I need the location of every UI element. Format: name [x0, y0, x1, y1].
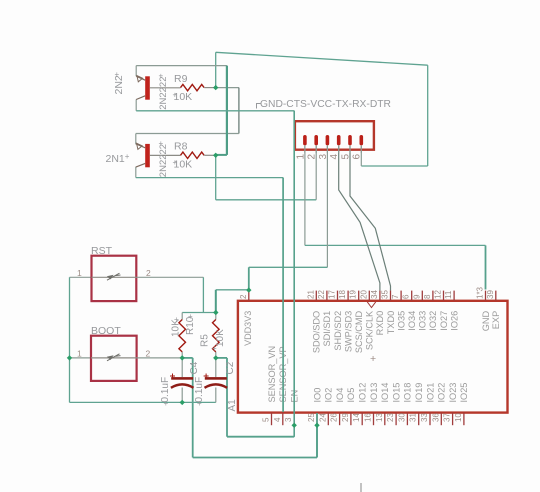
svg-text:1: 1: [295, 154, 306, 160]
svg-text:6: 6: [402, 294, 411, 299]
svg-text:IO27: IO27: [439, 311, 449, 331]
svg-text:IO14: IO14: [380, 383, 390, 403]
IC top pin stubs: [316, 291, 496, 301]
wire: connector pin1 drop: [304, 146, 306, 245]
svg-text:3: 3: [284, 417, 293, 422]
wire: R5 top lead: [215, 313, 217, 320]
svg-text:29: 29: [341, 413, 350, 422]
svg-text:SCK/CLK: SCK/CLK: [365, 310, 375, 350]
svg-text:IO19: IO19: [414, 383, 424, 403]
svg-text:4: 4: [273, 417, 282, 422]
svg-text:30: 30: [397, 413, 406, 422]
svg-text:VDD3V3: VDD3V3: [243, 311, 253, 346]
wire: CTS horizontal to pin2: [216, 199, 317, 201]
svg-text:IO33: IO33: [418, 311, 428, 331]
wire: 2N1 box bottom to right: [136, 177, 283, 179]
resistor R5 vertical: [213, 320, 220, 352]
transistor Q1 2N1: [136, 143, 181, 167]
junction C4 bottom: [180, 400, 185, 405]
svg-text:7: 7: [391, 294, 400, 299]
svg-text:3: 3: [318, 154, 329, 160]
IC top pin numbers: [306, 286, 495, 299]
svg-text:18: 18: [338, 290, 347, 299]
svg-text:IO35: IO35: [396, 311, 406, 331]
frame tick mark: [360, 483, 362, 492]
svg-text:BOOT: BOOT: [91, 325, 121, 337]
junction EN pin: [292, 423, 297, 428]
svg-text:23: 23: [386, 413, 395, 422]
svg-text:33: 33: [420, 413, 429, 422]
svg-text:SHD/SD2: SHD/SD2: [333, 311, 343, 351]
resistor R10 vertical: [179, 320, 186, 352]
pushbutton RST box: [92, 256, 137, 301]
junction IO0 pin: [314, 423, 319, 428]
wire: 2N2 emitter vertical to R8 level: [226, 66, 228, 155]
wire: connector pin2 drop: [315, 146, 317, 200]
lead R9 right: [204, 87, 216, 89]
svg-text:10: 10: [454, 413, 463, 422]
svg-text:A1: A1: [227, 399, 238, 412]
wire: C4 bottom lead: [181, 388, 183, 403]
wire: BOOT pin1 left: [70, 357, 92, 359]
svg-text:2N2222: 2N2222: [158, 77, 169, 110]
wire: 2N2 box top: [136, 65, 227, 67]
svg-text:IO34: IO34: [407, 311, 417, 331]
svg-text:+: +: [212, 344, 217, 353]
junction R5 bottom / C2 top: [213, 355, 218, 360]
svg-text:11: 11: [444, 290, 453, 299]
wire: into R8 junction: [216, 154, 227, 156]
wire: RST pin1 left: [70, 276, 92, 278]
wire: DTR horizontal to pin6: [361, 165, 427, 167]
wire: RST pin2 to right: [138, 276, 204, 278]
svg-text:EXP: EXP: [491, 311, 501, 329]
connector J1 body: [295, 121, 374, 150]
pushbutton BOOT box: [91, 336, 137, 381]
svg-text:25: 25: [307, 413, 316, 422]
svg-text:SDI/SD1: SDI/SD1: [322, 311, 332, 347]
resistor R8: [181, 152, 205, 158]
wire: R5 top junction left to R10: [182, 312, 216, 314]
wire: 2N1 box top: [136, 133, 239, 135]
wire: left GND column vertical: [69, 277, 71, 402]
wire: down to 2N1 collector net: [238, 88, 240, 134]
wire overlay: EN vertical over IC edges: [293, 111, 295, 437]
connector origin mark: [257, 104, 261, 109]
svg-text:14: 14: [352, 413, 361, 422]
svg-text:24: 24: [318, 413, 327, 422]
svg-text:21: 21: [306, 290, 315, 299]
svg-text:IO2: IO2: [324, 388, 334, 403]
svg-text:TXD0: TXD0: [386, 311, 396, 335]
svg-text:+: +: [174, 315, 179, 324]
wire: DTR slanted top wire: [216, 52, 428, 65]
svg-text:SWP/SD3: SWP/SD3: [343, 311, 353, 352]
svg-text:1: 1: [77, 268, 82, 278]
svg-text:22: 22: [317, 290, 326, 299]
wire: EN bottom horizontal: [227, 436, 294, 438]
junction R10 bottom / C4 top: [180, 355, 185, 360]
svg-text:SCS/CMD: SCS/CMD: [354, 310, 364, 353]
junction BOOT pin1: [67, 355, 72, 360]
RST through wire: [92, 276, 138, 278]
svg-text:RST: RST: [91, 245, 113, 257]
resistor R9: [181, 84, 205, 90]
junction R5 top: [213, 310, 218, 315]
capacitor C4: [170, 374, 194, 388]
svg-text:IO0: IO0: [312, 388, 322, 403]
wire: VDD dot left: [216, 289, 249, 291]
svg-text:16: 16: [364, 413, 373, 422]
wire: 2N2 box left bottom stub: [135, 100, 137, 111]
wire overlay: 2N1 collector over IC top edge: [282, 178, 284, 412]
svg-text:5: 5: [340, 154, 351, 160]
svg-text:20: 20: [359, 290, 368, 299]
transistor Q2 2N2: [136, 76, 180, 100]
svg-text:2N2222: 2N2222: [158, 144, 169, 177]
svg-text:+: +: [173, 91, 178, 100]
wire: R8 junction down: [215, 155, 217, 200]
svg-text:C4: C4: [189, 361, 200, 374]
IC bottom pin stubs: [272, 413, 464, 426]
svg-text:37: 37: [443, 413, 452, 422]
svg-text:2: 2: [239, 294, 248, 299]
connector pads: [303, 135, 363, 145]
wire: GND down to IC pin: [485, 245, 487, 289]
svg-text:35: 35: [381, 290, 390, 299]
svg-text:+: +: [173, 158, 178, 167]
svg-text:IO15: IO15: [391, 383, 401, 403]
wire overlay: connector pad leads over border: [305, 146, 361, 154]
svg-text:SDO/SDO: SDO/SDO: [312, 311, 322, 353]
capacitor C2: [204, 374, 228, 388]
wire: IO0 junction right: [182, 357, 193, 359]
wire: 2N2 box bottom long horizontal: [136, 110, 294, 112]
svg-text:IO32: IO32: [428, 311, 438, 331]
svg-text:13: 13: [375, 413, 384, 422]
wire: GND horizontal: [305, 244, 486, 246]
junction R8 right: [213, 153, 218, 158]
wire: 2N2 box left top stub: [135, 66, 137, 77]
svg-text:6: 6: [352, 154, 363, 160]
svg-text:5: 5: [262, 417, 271, 422]
wire: connector pin3 drop: [326, 146, 328, 267]
svg-text:R9: R9: [174, 73, 188, 85]
wire: RST pin2 down: [202, 277, 204, 312]
svg-text:4: 4: [329, 154, 340, 160]
IC top pin names: [312, 310, 502, 353]
svg-text:R5: R5: [199, 334, 210, 347]
BOOT through wire: [91, 357, 138, 359]
svg-text:C2: C2: [225, 361, 236, 374]
svg-text:GND-CTS-VCC-TX-RX-DTR: GND-CTS-VCC-TX-RX-DTR: [260, 99, 391, 110]
svg-text:GND: GND: [481, 310, 491, 331]
lead R8 right: [204, 154, 216, 156]
wire: R9 junction up to slant: [215, 52, 217, 87]
svg-text:1: 1: [77, 349, 82, 359]
svg-text:+: +: [159, 139, 164, 148]
connector pin numbers: [295, 154, 362, 160]
svg-text:IO23: IO23: [448, 383, 458, 403]
svg-text:IO25: IO25: [459, 383, 469, 403]
wire: EN long vertical: [293, 111, 295, 437]
svg-text:RXD0: RXD0: [375, 311, 385, 336]
svg-text:26: 26: [330, 413, 339, 422]
junction R9 right: [213, 85, 218, 90]
wire: BOOT pin2 right to junction: [138, 357, 182, 359]
wire: VCC down to VDD dot: [248, 267, 250, 290]
svg-text:39: 39: [486, 290, 495, 299]
svg-text:2N1+: 2N1+: [106, 152, 130, 165]
wire: connector pin5 to TXD0: [350, 146, 391, 291]
wire: EN into R5/C2 junction: [216, 357, 227, 359]
wire: connector pin6 drop: [360, 146, 362, 166]
wire: EN left vertical up to R5 junction: [226, 358, 228, 437]
wire: C2 bottom lead: [215, 388, 217, 403]
wire: DTR right vertical: [427, 65, 429, 166]
svg-text:17: 17: [328, 290, 337, 299]
wire overlay: IO0 over bottom stub: [316, 413, 318, 458]
wire: R10 top lead: [181, 313, 183, 320]
BOOT switch lever: [107, 354, 121, 361]
svg-text:+: +: [164, 399, 169, 408]
IC bottom pin numbers: [262, 413, 463, 422]
wire: VCC horizontal: [249, 266, 328, 268]
svg-text:12: 12: [434, 290, 443, 299]
svg-text:IO4: IO4: [335, 388, 345, 403]
wire: down to R5 top junction: [215, 290, 217, 313]
svg-text:2: 2: [307, 154, 318, 160]
svg-text:IO22: IO22: [437, 383, 447, 403]
svg-text:+: +: [159, 72, 164, 81]
svg-text:IO5: IO5: [346, 388, 356, 403]
wire: 2N1 box left top stub: [135, 134, 137, 145]
wire: 2N1 collector long vertical: [282, 178, 284, 412]
svg-text:+: +: [115, 70, 120, 79]
svg-text:SENSOR_VN: SENSOR_VN: [267, 346, 277, 403]
wire: R10 bottom lead to C4: [181, 352, 183, 377]
svg-text:9: 9: [412, 294, 421, 299]
svg-text:IO12: IO12: [358, 383, 368, 403]
net arrow mark: [367, 302, 376, 308]
wire: R5 bottom lead to C2: [215, 352, 217, 377]
IC U1 ESP32 body: [238, 301, 508, 413]
IC bottom pin names: [267, 346, 469, 403]
svg-text:36: 36: [431, 413, 440, 422]
svg-text:31: 31: [409, 413, 418, 422]
svg-text:2: 2: [146, 268, 151, 278]
IC pin 2 stub VDD3V3: [248, 290, 250, 301]
wire: bottom GND horizontal: [70, 401, 216, 403]
wire: IO0 up to pin25 dot: [316, 425, 318, 457]
svg-text:IO13: IO13: [369, 383, 379, 403]
svg-text:1*3: 1*3: [476, 286, 485, 299]
svg-text:IO26: IO26: [449, 311, 459, 331]
svg-text:R8: R8: [174, 141, 188, 153]
svg-text:IO21: IO21: [425, 383, 435, 403]
svg-text:+: +: [370, 353, 376, 365]
wire: IO0 vertical down: [192, 358, 194, 458]
RST switch lever: [107, 273, 121, 280]
wire: R9 junction right: [216, 87, 239, 89]
svg-text:8: 8: [423, 294, 432, 299]
svg-text:+: +: [197, 399, 202, 408]
wire: IO0 bottom horizontal: [193, 457, 317, 459]
svg-text:+: +: [188, 312, 193, 321]
svg-text:2: 2: [146, 349, 151, 359]
svg-text:19: 19: [349, 290, 358, 299]
junction VDD3V3: [246, 287, 251, 292]
svg-text:IO18: IO18: [403, 383, 413, 403]
wire: connector pin4 to RXD0: [339, 146, 380, 291]
svg-text:34: 34: [370, 290, 379, 299]
wire: 2N1 box left bottom stub: [135, 167, 137, 178]
